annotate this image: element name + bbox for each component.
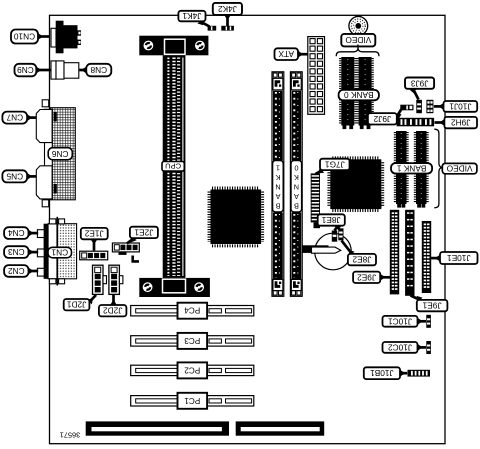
label CN10 [38,35,50,38]
DRAM chip BANK1 right [416,131,427,204]
buzzer VIDEO circle [349,17,368,36]
PCI slot PC2 [131,365,254,375]
D-sub flange strip [45,109,53,199]
svg-text:BANK 0: BANK 0 [344,90,374,100]
slot key bracket top [165,39,186,54]
jumper J10C2 [426,341,431,354]
label CN9 [36,69,50,72]
label CN4 [29,232,39,235]
CPU slot pins [167,58,169,277]
svg-text:PC1: PC1 [184,396,200,405]
connector J9H2 [397,118,435,127]
CN5 pin block [54,184,57,194]
svg-text:ATX: ATX [278,49,294,59]
ISA slot segment 2 [236,421,325,435]
battery clip [303,245,329,253]
PCI slot PC3 [131,336,254,346]
svg-text:CPU: CPU [165,162,181,171]
svg-text:J8E2: J8E2 [352,255,371,265]
svg-text:B: B [275,201,280,210]
label PC3 [178,333,208,349]
label J8E1 [335,226,339,231]
svg-text:CN6: CN6 [52,149,69,159]
I/O bracket tab top [42,100,49,107]
svg-text:PC2: PC2 [184,365,200,374]
label J9E1 [411,296,421,300]
label J7G1 [316,170,323,174]
svg-text:CN5: CN5 [6,171,23,181]
connector CN1 audio block (stippled) [44,224,49,279]
label CN3 [29,251,39,254]
label VIDEO right [442,163,477,173]
label BANK 0 [339,90,379,100]
label J1E2 [93,239,96,250]
label J10E1 [431,257,440,260]
SMD part near J2E1 [131,256,139,263]
jumper J9J2 [400,105,413,111]
label VIDEO top [341,34,375,47]
svg-text:A: A [275,192,280,201]
audio bracket tab top [49,219,56,224]
audio jack CN4 [37,230,44,238]
svg-text:J10B1: J10B1 [370,368,394,378]
svg-text:CN9: CN9 [17,65,34,75]
label J9H2 [435,121,445,124]
retention hole left [144,41,154,51]
label J9J3 [413,89,419,100]
label J8E2 [342,241,353,254]
jumper J10C1 [426,315,431,328]
label J9J2 [397,109,402,117]
svg-text:CN8: CN8 [90,65,107,75]
label J4K2 [226,15,229,27]
chipset U1 (QFP) [211,190,262,245]
DIMM socket BANK0 [290,72,302,296]
svg-text:J4K1: J4K1 [182,11,201,21]
svg-text:J10E1: J10E1 [447,253,471,263]
connector CN7 D-sub shell [36,110,52,143]
header J9E1 (IDE) [406,210,414,295]
label PC4 [178,303,208,319]
label CN6 [48,148,72,160]
jumper J8E1 [332,231,337,242]
audio jack CN3 [37,249,44,257]
svg-text:0: 0 [294,164,298,173]
connector CN6 parallel port block (hatched) [51,108,76,200]
header J2D2 [109,265,120,294]
label PC2 [178,362,208,378]
svg-text:J9E1: J9E1 [422,301,441,311]
chipset U2 (QFP) [330,159,381,209]
header J10E1 (IDE) [422,222,430,293]
audio bracket tab bottom [49,279,56,284]
svg-text:J2D1: J2D1 [67,300,87,310]
connector CN9/CN8 [51,61,56,79]
svg-text:CN4: CN4 [8,228,25,238]
svg-text:J9H2: J9H2 [451,118,471,128]
label BANK 1 [391,163,432,173]
label CN5 [27,175,36,178]
jumper block for J4K2 [221,26,234,31]
CPU slot bottom retention bar [139,278,210,297]
svg-text:PC3: PC3 [184,336,200,345]
label J2D1 [89,295,96,302]
buzzer stem [355,16,362,18]
jumper block for J4K1 [208,26,217,31]
svg-text:36571: 36571 [60,431,81,440]
label CN2 [29,270,39,273]
label ATX [298,53,308,56]
svg-text:1: 1 [276,164,280,173]
SMD nub beside J7G1 connector [318,219,323,224]
label J10C2 [418,346,427,349]
svg-text:CN2: CN2 [8,266,25,276]
header J1E2 [80,251,108,260]
svg-text:J9J3: J9J3 [410,78,428,88]
label J10J1 [434,105,444,108]
label PC1 [178,393,208,409]
svg-text:K: K [275,173,280,182]
label CN7 [27,116,36,119]
svg-text:B: B [294,201,299,210]
motherboard outline [50,15,446,443]
connector ATX power [308,37,325,115]
svg-text:K: K [294,173,299,182]
svg-text:VIDEO: VIDEO [345,35,371,45]
jumper J9J3 [416,100,422,113]
label J4K1 [200,21,210,26]
svg-text:CN10: CN10 [14,32,36,42]
DIMM socket BANK1 [272,72,284,296]
label CN1 [48,247,72,257]
CPU slot body [163,55,186,278]
connector CN5 D-sub shell [36,166,52,199]
label J9E2 [380,276,390,279]
svg-text:J8E1: J8E1 [321,215,340,225]
label CN8 [79,69,86,72]
PCI slot PC1 [131,396,254,406]
header J9E2 (floppy) [390,210,398,294]
connector CN10 keyboard DIN [56,21,64,54]
label J10C1 [418,320,427,323]
connector for J7G1 (striped) [311,173,320,222]
svg-text:J2D2: J2D2 [103,306,123,316]
DRAM chip BANK0 left [341,57,354,126]
svg-text:CN3: CN3 [8,247,25,257]
PCI slot PC4 [131,306,254,316]
audio jack CN2 [37,268,44,276]
header J2E1 [112,243,139,252]
svg-text:CN7: CN7 [6,113,23,123]
svg-text:N: N [294,183,299,192]
svg-text:J2E1: J2E1 [134,227,153,237]
label J10B1 [400,372,407,375]
DRAM chip BANK1 left [396,131,407,204]
svg-text:J9E2: J9E2 [357,272,376,282]
svg-text:CN1: CN1 [51,248,68,258]
label CPU [162,162,184,172]
retention hole right [195,41,205,51]
svg-text:A: A [294,192,299,201]
CN7 pin block [54,112,57,122]
svg-text:J4K2: J4K2 [218,4,237,14]
label J2D2 [112,295,115,305]
svg-text:PC4: PC4 [184,306,200,315]
svg-text:J9J2: J9J2 [373,114,391,124]
svg-text:J10C2: J10C2 [388,342,412,352]
DRAM chip BANK0 right [359,57,372,126]
brace right of BANK 1 chips [434,129,442,208]
jumper J8E2 [338,228,343,240]
svg-text:J1E2: J1E2 [84,229,103,239]
I/O bracket tab bottom [42,200,49,207]
connector J10B1 [408,370,431,377]
CPU slot top retention bar [139,36,208,56]
svg-text:VIDEO: VIDEO [446,164,472,174]
svg-text:J10C1: J10C1 [388,316,412,326]
header J2D1 [93,265,104,294]
label J2E1 [127,238,134,244]
svg-text:J10J1: J10J1 [449,101,472,111]
header J10J1 [426,100,433,113]
ISA slot segment 1 [86,421,229,435]
brace over BANK 0 chips [357,45,359,50]
svg-text:J7G1: J7G1 [325,159,345,169]
svg-text:BANK 1: BANK 1 [396,163,426,173]
svg-text:N: N [275,183,280,192]
battery BT1 [315,233,352,270]
SMD capacitors near J9E2 [376,197,382,202]
